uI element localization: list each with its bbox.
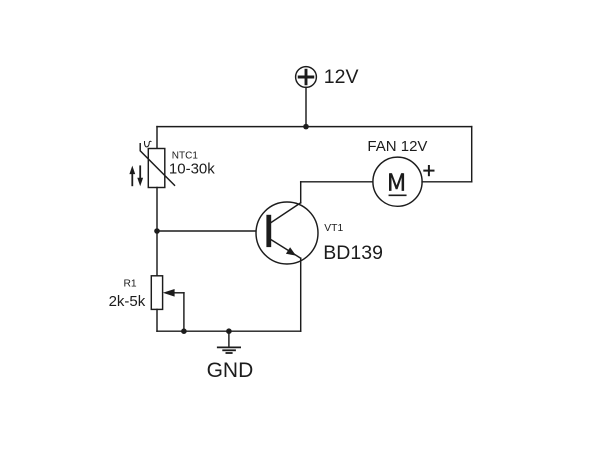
junction 12V tap [303,124,309,130]
wire R1 bottom [156,309,158,331]
svg-text:2k-5k: 2k-5k [109,293,146,310]
junction wiper on bottom bus [181,328,187,334]
svg-text:BD139: BD139 [323,242,383,264]
transistor VT1 [256,202,318,264]
ground [218,331,240,353]
wire 12V stub [305,87,307,126]
wire collector up [300,182,302,203]
arrow up [129,166,135,186]
polarity + [424,166,433,175]
wire wiper vertical [183,293,185,331]
wire top bus [157,126,472,128]
wire NTC bottom to base junction [156,188,158,232]
potentiometer R1 [151,276,184,310]
theta mark [144,141,151,147]
svg-text:12V: 12V [324,66,359,88]
arrow down [137,166,143,186]
svg-text:10-30k: 10-30k [169,161,215,178]
motor M fan [373,157,422,206]
wire collector to motor [301,181,373,183]
svg-text:R1: R1 [124,279,137,290]
svg-text:FAN 12V: FAN 12V [367,138,427,155]
power +12V supply symbol [296,67,317,88]
svg-text:GND: GND [207,359,254,382]
wire base [157,230,266,232]
wire emitter down [300,258,302,331]
wire junction to R1 top [156,231,158,276]
wire motor to right bus [422,181,472,183]
wire right vertical [471,127,473,182]
motor letter M [389,173,404,191]
junction base node [154,228,160,234]
junction ground tap [226,328,232,334]
svg-text:VT1: VT1 [324,223,343,234]
wire bottom bus [157,330,301,332]
wire left vertical to NTC [156,127,158,149]
thermistor NTC1 [140,144,174,188]
